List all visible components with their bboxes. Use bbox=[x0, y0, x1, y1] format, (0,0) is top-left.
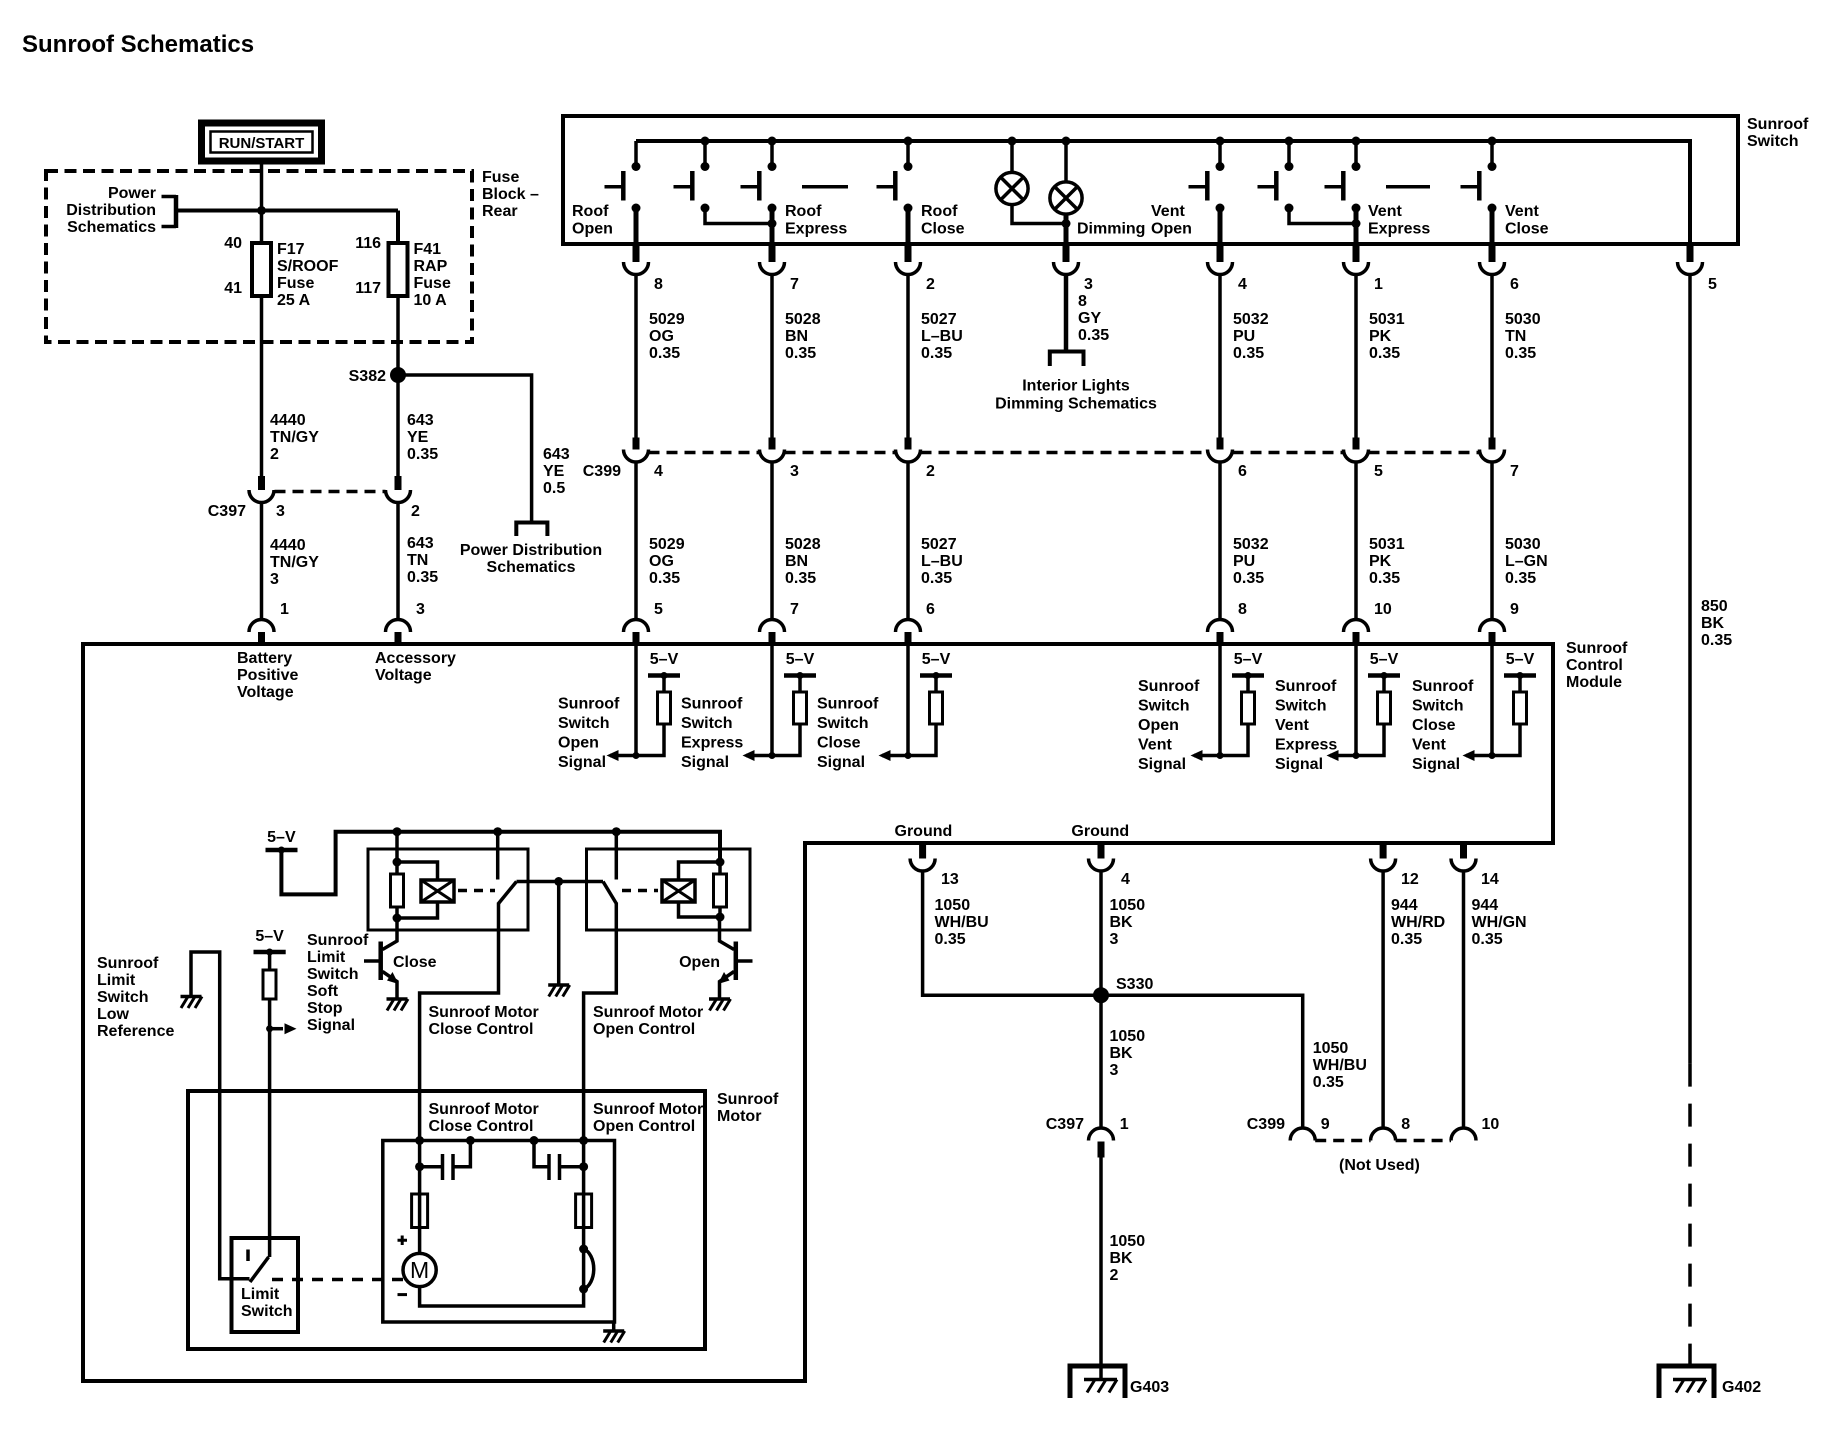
label Roof Close bbox=[921, 203, 965, 238]
wire switch Vent Express signal input bbox=[1354, 646, 1358, 756]
svg-text:3: 3 bbox=[276, 503, 285, 520]
svg-text:1050: 1050 bbox=[1110, 897, 1146, 914]
svg-text:3: 3 bbox=[1110, 931, 1119, 948]
svg-text:Fuse: Fuse bbox=[414, 275, 451, 292]
switch Vent Open bbox=[1189, 137, 1225, 213]
module connector pin 6 bbox=[896, 601, 936, 646]
svg-text:WH/RD: WH/RD bbox=[1391, 914, 1445, 931]
wire K2 coil feed bbox=[716, 832, 725, 867]
wire 5027 L&#8211;BU bbox=[908, 275, 963, 438]
svg-text:Roof: Roof bbox=[572, 203, 609, 220]
svg-text:Signal: Signal bbox=[558, 754, 606, 771]
signal arrow soft stop bbox=[270, 1023, 297, 1034]
svg-text:0.35: 0.35 bbox=[407, 569, 438, 586]
svg-text:Open Control: Open Control bbox=[593, 1118, 695, 1135]
svg-text:Vent: Vent bbox=[1151, 203, 1185, 220]
svg-text:3: 3 bbox=[416, 601, 425, 618]
connector C397 mating line bbox=[275, 490, 386, 494]
signal arrow Close Vent bbox=[1463, 750, 1493, 761]
switch Vent Express B bbox=[1325, 137, 1361, 213]
wire limit switch sense bbox=[266, 999, 273, 1257]
connector C399 mating line bbox=[649, 451, 1480, 455]
svg-text:Close: Close bbox=[921, 221, 965, 238]
label 850 BK 0.35 bbox=[1701, 598, 1732, 649]
svg-text:Switch: Switch bbox=[1275, 698, 1327, 715]
wire low reference bbox=[191, 952, 250, 1279]
connector C397 pin 3 bbox=[249, 476, 274, 503]
5-V supply Vent Express bbox=[1368, 651, 1400, 679]
svg-text:Battery: Battery bbox=[237, 650, 292, 667]
svg-text:Sunroof: Sunroof bbox=[681, 696, 743, 713]
svg-text:Sunroof Schematics: Sunroof Schematics bbox=[22, 31, 254, 58]
svg-text:Sunroof: Sunroof bbox=[1138, 678, 1200, 695]
label F17 S/ROOF Fuse 25 A bbox=[277, 241, 339, 309]
label Vent Close bbox=[1505, 203, 1549, 238]
connector C399 mating line (lower) bbox=[1315, 1139, 1451, 1143]
svg-text:850: 850 bbox=[1701, 598, 1728, 615]
svg-text:Voltage: Voltage bbox=[237, 684, 294, 701]
lamp dimming 2 bbox=[1050, 137, 1082, 229]
limit switch arm bbox=[250, 1257, 269, 1282]
svg-text:C399: C399 bbox=[1247, 1116, 1285, 1133]
lamp dimming 1 bbox=[996, 137, 1066, 224]
svg-text:RAP: RAP bbox=[414, 258, 448, 275]
svg-text:0.35: 0.35 bbox=[935, 931, 966, 948]
wire 5029 OG lower bbox=[636, 462, 685, 620]
signal arrow Open bbox=[607, 750, 637, 761]
module connector pin 12 bbox=[1371, 845, 1419, 888]
node relay K1 coil feed bbox=[393, 827, 402, 836]
wire sunroof motor open control bbox=[584, 903, 617, 1290]
svg-text:Schematics: Schematics bbox=[67, 219, 156, 236]
svg-text:1: 1 bbox=[1374, 276, 1383, 293]
resistor K2 suppression bbox=[714, 862, 727, 922]
svg-text:Interior Lights: Interior Lights bbox=[1022, 378, 1130, 395]
wire Vent Close output bbox=[1490, 208, 1495, 246]
svg-text:Reference: Reference bbox=[97, 1023, 174, 1040]
battery feed RUN/START bbox=[202, 123, 322, 161]
svg-text:40: 40 bbox=[224, 235, 242, 252]
svg-text:RUN/START: RUN/START bbox=[219, 135, 305, 152]
connector C397 pin 2 bbox=[386, 476, 411, 503]
resistor limit switch pull-up bbox=[263, 952, 276, 999]
label Fuse Block - Rear bbox=[482, 169, 539, 220]
wire ground node drop bbox=[557, 882, 561, 986]
wire 1050 BK 2 bbox=[1101, 1158, 1145, 1380]
svg-text:1: 1 bbox=[280, 601, 289, 618]
svg-text:5–V: 5–V bbox=[1506, 651, 1535, 668]
switch Roof Express B bbox=[741, 137, 777, 213]
svg-text:5–V: 5–V bbox=[1370, 651, 1399, 668]
5-V supply Express bbox=[784, 651, 816, 679]
5-V supply Close Vent bbox=[1504, 651, 1536, 679]
svg-text:Signal: Signal bbox=[1275, 756, 1323, 773]
svg-text:YE: YE bbox=[407, 429, 429, 446]
svg-text:Low: Low bbox=[97, 1006, 130, 1023]
label Power Distribution Schematics bbox=[66, 185, 156, 236]
mechanical link K2 coil to contact bbox=[622, 889, 658, 893]
ground limit switch low reference bbox=[181, 997, 203, 1009]
sunroof switch pin 6 bbox=[1480, 246, 1520, 293]
label 643 YE 0.5 bbox=[543, 446, 570, 497]
resistor pull-up Vent Express bbox=[1353, 676, 1391, 760]
svg-text:BK: BK bbox=[1701, 615, 1725, 632]
svg-text:BN: BN bbox=[785, 553, 808, 570]
relay coil K1 bbox=[397, 862, 454, 918]
svg-text:Close Control: Close Control bbox=[429, 1021, 534, 1038]
svg-text:13: 13 bbox=[941, 871, 959, 888]
svg-text:Rear: Rear bbox=[482, 203, 518, 220]
svg-text:WH/BU: WH/BU bbox=[1313, 1057, 1367, 1074]
wire K2 contact feed bbox=[615, 832, 619, 880]
wire 5028 BN lower bbox=[772, 462, 821, 620]
label Sunroof Switch Open Signal bbox=[558, 696, 620, 772]
off-page connector Interior Lights Dimming bbox=[1050, 352, 1084, 367]
wire S330 to C399 bbox=[1101, 995, 1367, 1128]
svg-text:Block –: Block – bbox=[482, 186, 539, 203]
sunroof switch pin 3 bbox=[1054, 246, 1094, 293]
svg-text:Ground: Ground bbox=[1071, 823, 1129, 840]
module connector pin 3 bbox=[386, 601, 426, 646]
svg-text:0.35: 0.35 bbox=[1391, 931, 1422, 948]
polarity - bbox=[398, 1293, 408, 1296]
splice S330 bbox=[1093, 976, 1153, 1003]
switch Roof Open bbox=[605, 141, 641, 213]
svg-text:Sunroof: Sunroof bbox=[1412, 678, 1474, 695]
svg-text:8: 8 bbox=[1238, 601, 1247, 618]
svg-text:5028: 5028 bbox=[785, 536, 821, 553]
junction at feed split bbox=[257, 206, 266, 215]
svg-text:Power Distribution: Power Distribution bbox=[460, 542, 602, 559]
svg-text:S/ROOF: S/ROOF bbox=[277, 258, 339, 275]
connector C397 pin 1 (lower) bbox=[1046, 1116, 1129, 1158]
svg-text:Sunroof: Sunroof bbox=[817, 696, 879, 713]
svg-text:116: 116 bbox=[355, 235, 381, 252]
svg-text:944: 944 bbox=[1472, 897, 1499, 914]
switch Roof Close bbox=[877, 137, 913, 213]
svg-text:Signal: Signal bbox=[307, 1017, 355, 1034]
label Sunroof Limit Switch Soft Stop Signal bbox=[307, 932, 369, 1034]
label Sunroof Motor Open Control bbox=[593, 1004, 703, 1038]
sunroof switch pin 8 bbox=[624, 246, 664, 293]
svg-text:12: 12 bbox=[1401, 871, 1419, 888]
svg-text:10: 10 bbox=[1374, 601, 1392, 618]
svg-text:BK: BK bbox=[1110, 1045, 1134, 1062]
svg-text:0.35: 0.35 bbox=[921, 570, 952, 587]
brush arc bbox=[579, 1245, 594, 1294]
svg-text:Control: Control bbox=[1566, 657, 1623, 674]
signal arrow Express bbox=[743, 750, 773, 761]
label Vent Express bbox=[1368, 203, 1430, 238]
svg-text:14: 14 bbox=[1481, 871, 1499, 888]
module connector pin 7 bbox=[760, 601, 800, 646]
svg-text:Open: Open bbox=[572, 221, 613, 238]
label Interior Lights Dimming Schematics bbox=[995, 378, 1157, 413]
5-V supply Close bbox=[920, 651, 952, 679]
svg-text:4: 4 bbox=[1121, 871, 1130, 888]
svg-text:8: 8 bbox=[1401, 1116, 1410, 1133]
svg-text:Sunroof: Sunroof bbox=[307, 932, 369, 949]
svg-text:Open Control: Open Control bbox=[593, 1021, 695, 1038]
svg-text:GY: GY bbox=[1078, 310, 1101, 327]
svg-text:G403: G403 bbox=[1130, 1379, 1169, 1396]
wire 643 TN 0.35 bbox=[396, 503, 400, 620]
capacitor C1 suppression bbox=[415, 1136, 475, 1180]
fuse F17 S/ROOF 25A bbox=[252, 243, 271, 296]
mechanical link limit switch to motor bbox=[272, 1278, 404, 1282]
svg-text:Express: Express bbox=[1368, 221, 1430, 238]
sunroof switch assembly box bbox=[563, 116, 1738, 244]
svg-text:M: M bbox=[410, 1257, 429, 1283]
svg-text:OG: OG bbox=[649, 553, 674, 570]
svg-text:F17: F17 bbox=[277, 241, 305, 258]
svg-text:Ground: Ground bbox=[895, 823, 953, 840]
svg-text:643: 643 bbox=[543, 446, 570, 463]
relay K2 open relay box bbox=[587, 849, 751, 930]
wire 5032 PU bbox=[1220, 275, 1269, 438]
wire Dimming output bbox=[1064, 214, 1069, 246]
svg-text:5–V: 5–V bbox=[922, 651, 951, 668]
resistor pull-up Open Vent bbox=[1217, 676, 1255, 760]
wire 8 GY 0.35 (dimming) bbox=[1066, 275, 1109, 352]
relay K1 close relay box bbox=[368, 849, 528, 930]
svg-text:3: 3 bbox=[1084, 276, 1093, 293]
5-V supply relay bus bbox=[266, 829, 298, 854]
sunroof switch pin 2 bbox=[896, 246, 936, 293]
module connector pin 14 bbox=[1451, 845, 1499, 888]
5-V supply limit switch bbox=[254, 928, 286, 956]
svg-text:OG: OG bbox=[649, 328, 674, 345]
wire K1 coil feed bbox=[393, 832, 402, 867]
svg-text:Limit: Limit bbox=[97, 972, 136, 989]
svg-text:4: 4 bbox=[1238, 276, 1247, 293]
wire Vent Express output bbox=[1354, 208, 1359, 246]
svg-text:Module: Module bbox=[1566, 674, 1622, 691]
svg-text:4: 4 bbox=[654, 463, 663, 480]
5-V supply Open Vent bbox=[1232, 651, 1264, 679]
svg-text:Motor: Motor bbox=[717, 1108, 761, 1125]
connector C399 pin 5 bbox=[1344, 438, 1384, 481]
svg-text:PK: PK bbox=[1369, 328, 1392, 345]
svg-text:Schematics: Schematics bbox=[487, 559, 576, 576]
svg-text:9: 9 bbox=[1321, 1116, 1330, 1133]
svg-text:5031: 5031 bbox=[1369, 536, 1405, 553]
ground Q2 emitter bbox=[709, 999, 731, 1011]
fuse F41 RAP 10A bbox=[389, 243, 408, 296]
5-V supply Open bbox=[648, 651, 680, 679]
label Sunroof Motor Close Control (motor) bbox=[429, 1101, 539, 1135]
svg-text:Limit: Limit bbox=[241, 1286, 280, 1303]
svg-text:Vent: Vent bbox=[1505, 203, 1539, 220]
svg-text:9: 9 bbox=[1510, 601, 1519, 618]
module connector pin 5 bbox=[624, 601, 664, 646]
label Accessory Voltage bbox=[375, 650, 456, 684]
svg-text:Express: Express bbox=[785, 221, 847, 238]
svg-text:BK: BK bbox=[1110, 914, 1134, 931]
wire 5027 L&#8211;BU lower bbox=[908, 462, 963, 620]
svg-text:Sunroof Motor: Sunroof Motor bbox=[593, 1004, 703, 1021]
svg-text:Close: Close bbox=[1505, 221, 1549, 238]
label Sunroof Switch Vent Express Signal bbox=[1275, 678, 1337, 773]
svg-text:Express: Express bbox=[681, 735, 743, 752]
module connector pin 10 bbox=[1344, 601, 1392, 646]
svg-text:7: 7 bbox=[1510, 463, 1519, 480]
svg-text:Open: Open bbox=[1151, 221, 1192, 238]
svg-text:0.35: 0.35 bbox=[649, 345, 680, 362]
svg-text:Sunroof: Sunroof bbox=[97, 955, 159, 972]
wire Roof Express output bbox=[770, 208, 775, 246]
switch Vent Close bbox=[1461, 137, 1497, 213]
svg-text:Limit: Limit bbox=[307, 949, 346, 966]
label Sunroof Switch Close Signal bbox=[817, 696, 879, 772]
svg-text:2: 2 bbox=[411, 503, 420, 520]
fuse block rear (dashed outline) bbox=[46, 171, 472, 342]
svg-text:C397: C397 bbox=[208, 503, 246, 520]
svg-text:Switch: Switch bbox=[1747, 133, 1799, 150]
resistor pull-up Close bbox=[905, 676, 943, 760]
splice S382 bbox=[390, 367, 406, 383]
svg-text:1: 1 bbox=[1120, 1116, 1129, 1133]
svg-text:2: 2 bbox=[926, 463, 935, 480]
label Sunroof Control Module bbox=[1566, 640, 1628, 691]
svg-text:5028: 5028 bbox=[785, 311, 821, 328]
label Limit Switch bbox=[241, 1286, 293, 1320]
svg-text:Accessory: Accessory bbox=[375, 650, 456, 667]
svg-text:PK: PK bbox=[1369, 553, 1392, 570]
sunroof switch pin 4 bbox=[1208, 246, 1248, 293]
svg-text:BK: BK bbox=[1110, 1250, 1134, 1267]
label Battery Positive Voltage bbox=[237, 650, 298, 701]
svg-text:0.35: 0.35 bbox=[1505, 345, 1536, 362]
transistor Q2 open driver bbox=[718, 917, 753, 999]
svg-text:Roof: Roof bbox=[785, 203, 822, 220]
sunroof switch pin 5 bbox=[1678, 246, 1718, 293]
off-page connector to Power Distribution Schematics bbox=[162, 195, 177, 228]
resistor K1 suppression bbox=[391, 862, 404, 923]
transistor Q1 close driver bbox=[364, 918, 399, 999]
connector C399 pin 9 (lower) bbox=[1247, 1116, 1330, 1141]
svg-text:Fuse: Fuse bbox=[482, 169, 519, 186]
label Sunroof Limit Switch Low Reference bbox=[97, 955, 174, 1040]
svg-text:L–BU: L–BU bbox=[921, 553, 963, 570]
wire 5030 TN bbox=[1492, 275, 1541, 438]
module connector pin 9 bbox=[1480, 601, 1520, 646]
signal arrow Open Vent bbox=[1191, 750, 1221, 761]
svg-text:Positive: Positive bbox=[237, 667, 298, 684]
label Sunroof Motor Open Control (motor) bbox=[593, 1101, 703, 1135]
svg-text:0.35: 0.35 bbox=[1369, 345, 1400, 362]
label Roof Express bbox=[785, 203, 847, 238]
svg-text:3: 3 bbox=[270, 571, 279, 588]
svg-text:Open: Open bbox=[679, 954, 720, 971]
wire 5028 BN bbox=[772, 275, 821, 438]
svg-text:5029: 5029 bbox=[649, 536, 685, 553]
svg-text:0.35: 0.35 bbox=[649, 570, 680, 587]
wire battery feed through F17 bbox=[260, 211, 264, 477]
svg-text:1050: 1050 bbox=[1313, 1040, 1349, 1057]
wire K1 contact feed bbox=[496, 832, 500, 880]
label 643 YE 0.35 bbox=[407, 412, 438, 463]
connector C399 pin 4 bbox=[624, 438, 664, 481]
signal arrow Close bbox=[879, 750, 909, 761]
svg-text:Signal: Signal bbox=[1412, 756, 1460, 773]
svg-text:Signal: Signal bbox=[817, 754, 865, 771]
wire contact common to ground node bbox=[517, 880, 604, 884]
connector C399 pin 6 bbox=[1208, 438, 1248, 481]
mechanical link K1 coil to contact bbox=[458, 889, 495, 893]
motor case bbox=[383, 1141, 615, 1323]
label Sunroof Switch Express Signal bbox=[681, 696, 743, 772]
svg-text:Roof: Roof bbox=[921, 203, 958, 220]
svg-text:944: 944 bbox=[1391, 897, 1418, 914]
svg-text:Power: Power bbox=[108, 185, 156, 202]
relay contact K2 bbox=[603, 882, 616, 904]
svg-text:Sunroof: Sunroof bbox=[558, 696, 620, 713]
wire 4440 TN/GY 3 bbox=[260, 503, 264, 620]
svg-text:Sunroof: Sunroof bbox=[717, 1091, 779, 1108]
resistor pull-up Express bbox=[769, 676, 807, 760]
svg-text:2: 2 bbox=[1110, 1267, 1119, 1284]
svg-text:7: 7 bbox=[790, 276, 799, 293]
ground G403 bbox=[1070, 1366, 1169, 1398]
svg-text:Stop: Stop bbox=[307, 1000, 343, 1017]
svg-text:Vent: Vent bbox=[1275, 717, 1309, 734]
module connector pin 4 bbox=[1089, 845, 1131, 888]
svg-text:PU: PU bbox=[1233, 328, 1255, 345]
switch Vent Express A bbox=[1258, 137, 1294, 213]
svg-text:Close Control: Close Control bbox=[429, 1118, 534, 1135]
svg-text:Switch: Switch bbox=[97, 989, 149, 1006]
svg-text:Soft: Soft bbox=[307, 983, 339, 1000]
sunroof switch pin 1 bbox=[1344, 246, 1384, 293]
svg-text:Switch: Switch bbox=[681, 715, 733, 732]
svg-text:Sunroof Motor: Sunroof Motor bbox=[429, 1004, 539, 1021]
limit switch box bbox=[232, 1238, 299, 1332]
svg-text:Close: Close bbox=[817, 735, 861, 752]
svg-text:S330: S330 bbox=[1116, 976, 1153, 993]
svg-text:Sunroof: Sunroof bbox=[1747, 116, 1809, 133]
svg-text:0.35: 0.35 bbox=[1233, 345, 1264, 362]
node open wire at case bbox=[579, 1136, 588, 1145]
svg-text:L–BU: L–BU bbox=[921, 328, 963, 345]
svg-text:7: 7 bbox=[790, 601, 799, 618]
wire Roof Close output bbox=[906, 208, 911, 246]
capacitor C2 suppression bbox=[530, 1136, 589, 1180]
wire Vent Open output bbox=[1218, 208, 1223, 246]
label Power Distribution Schematics bbox=[460, 542, 602, 576]
svg-text:Signal: Signal bbox=[1138, 756, 1186, 773]
wire 1050 BK 3 bbox=[1101, 871, 1145, 1128]
wire relay supply bus bbox=[281, 832, 720, 895]
connector C399 pin 2 bbox=[896, 438, 936, 481]
wire Vent Express contact link bbox=[1289, 208, 1361, 228]
svg-text:0.35: 0.35 bbox=[1078, 327, 1109, 344]
svg-text:8: 8 bbox=[1078, 293, 1087, 310]
module connector pin 8 bbox=[1208, 601, 1248, 646]
svg-text:Vent: Vent bbox=[1368, 203, 1402, 220]
svg-text:0.35: 0.35 bbox=[1505, 570, 1536, 587]
relay contact K1 bbox=[499, 882, 517, 904]
module connector pin 1 bbox=[249, 601, 289, 646]
wire motor bottom loop bbox=[420, 1287, 584, 1306]
svg-text:5031: 5031 bbox=[1369, 311, 1405, 328]
node relay K2 contact feed bbox=[612, 827, 621, 836]
svg-text:6: 6 bbox=[1510, 276, 1519, 293]
label Roof Open bbox=[572, 203, 613, 238]
connector C399 pin 10 (lower) bbox=[1451, 1116, 1499, 1141]
breaker close branch bbox=[412, 1194, 428, 1228]
svg-text:Sunroof: Sunroof bbox=[1275, 678, 1337, 695]
